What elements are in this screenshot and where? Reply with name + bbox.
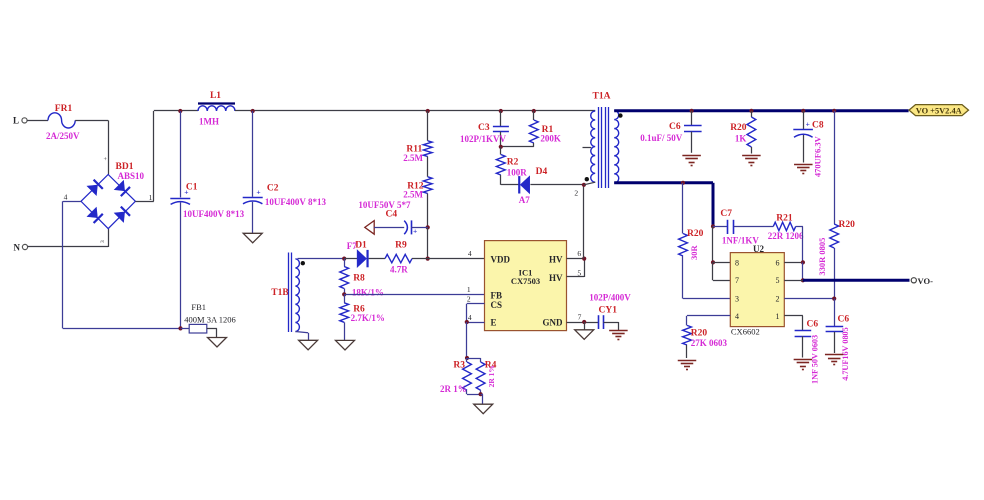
wire N to bridge bottom: [28, 246, 109, 248]
svg-text:A7: A7: [519, 195, 530, 205]
svg-text:GND: GND: [543, 318, 564, 328]
svg-text:C2: C2: [267, 183, 279, 193]
wire C7 node down to pin8: [712, 226, 714, 262]
wire E node down to R3 R4: [466, 322, 468, 358]
ground under IC1 GND: [584, 322, 586, 330]
svg-text:5: 5: [776, 276, 780, 285]
svg-text:C6: C6: [669, 122, 681, 132]
svg-text:2: 2: [776, 295, 780, 304]
resistor R1 200K: [533, 111, 535, 120]
phase dot primary: [585, 177, 589, 181]
wire HV pin 6: [567, 258, 585, 260]
node junction FB row: [342, 292, 346, 296]
earth ground C6 0603: [794, 359, 813, 361]
svg-text:470UF6.3V: 470UF6.3V: [813, 135, 823, 177]
svg-text:VDD: VDD: [491, 254, 511, 264]
node junction GND: [582, 320, 586, 324]
capacitor C6 4.7UF16V 0805: [834, 299, 836, 326]
wire fuse to bridge top: [75, 120, 108, 122]
svg-text:2: 2: [574, 188, 578, 197]
phase dot secondary: [618, 113, 622, 117]
resistor R20 27K 0603: [683, 325, 692, 345]
svg-text:27K 0603: 27K 0603: [691, 338, 728, 348]
svg-text:E: E: [491, 318, 497, 328]
svg-text:R8: R8: [353, 274, 365, 284]
svg-text:R20: R20: [839, 220, 856, 230]
capacitor C3 102P/1KVV: [500, 111, 502, 126]
wire switch node vertical: [583, 185, 585, 259]
node junction C2: [251, 109, 255, 113]
wire pin1: [784, 315, 803, 317]
node junction pin8: [711, 260, 715, 264]
resistor R11 2.5M: [427, 111, 429, 141]
node junction R3R4 bottom: [479, 392, 483, 396]
node junction R3R4 top: [465, 356, 469, 360]
node junction snubber: [499, 145, 503, 149]
svg-text:4: 4: [468, 249, 472, 258]
wire secondary bottom bus: [614, 181, 713, 184]
svg-text:0.1uF/ 50V: 0.1uF/ 50V: [640, 133, 683, 143]
capacitor C6 1NF 50V 0603: [795, 330, 812, 332]
node junction HV: [582, 257, 586, 261]
svg-text:30R: 30R: [689, 245, 699, 261]
svg-text:T1B: T1B: [271, 288, 289, 298]
svg-text:VO +5V2.4A: VO +5V2.4A: [916, 106, 962, 115]
svg-text:+: +: [256, 187, 260, 196]
svg-text:C8: C8: [812, 120, 824, 130]
capacitor C7 1NF/1KV: [713, 226, 727, 228]
svg-text:2.7K/1%: 2.7K/1%: [351, 313, 385, 323]
earth ground R20 27K: [678, 360, 697, 362]
wire HV pin 5: [567, 276, 585, 278]
resistor R9 4.7R: [385, 254, 412, 262]
svg-text:ABS10: ABS10: [118, 171, 145, 181]
capacitor C2 10UF400V: [252, 111, 254, 197]
inductor L1 1MH: [198, 102, 235, 104]
wire R1 bottom to C3 bottom: [501, 146, 534, 148]
svg-text:10UF400V 8*13: 10UF400V 8*13: [265, 197, 327, 207]
svg-text:CX6602: CX6602: [731, 326, 760, 336]
resistor R20 1K: [751, 111, 753, 117]
svg-text:CX7503: CX7503: [511, 276, 540, 286]
svg-text:10UF50V 5*7: 10UF50V 5*7: [358, 200, 411, 210]
svg-text:7: 7: [578, 312, 582, 321]
svg-text:2A/250V: 2A/250V: [46, 131, 80, 141]
svg-text:C7: C7: [720, 209, 732, 219]
svg-text:1: 1: [149, 193, 153, 202]
svg-text:200K: 200K: [540, 134, 561, 144]
fuse FR1: [48, 113, 75, 128]
node junction R20 330R: [832, 109, 836, 113]
wire pin2: [784, 298, 834, 300]
svg-text:6: 6: [776, 259, 780, 268]
svg-text:D1: D1: [355, 240, 367, 250]
earth ground C6: [682, 155, 701, 157]
svg-text:D4: D4: [536, 167, 548, 177]
bridge rectifier BD1 ABS10: [81, 175, 135, 229]
svg-text:4: 4: [735, 312, 739, 321]
wire +5V output bus: [614, 109, 908, 112]
capacitor C8 470UF6.3V: [803, 111, 805, 130]
ground under FB1: [208, 338, 227, 348]
svg-text:1K: 1K: [735, 133, 747, 143]
wire R12 to C4 node: [427, 194, 429, 228]
svg-text:+: +: [806, 119, 810, 128]
ground under R3R4: [481, 394, 483, 396]
svg-text:2.5M: 2.5M: [403, 153, 423, 163]
svg-text:HV: HV: [549, 273, 563, 283]
svg-text:22R 1206: 22R 1206: [768, 231, 804, 241]
wire top rail to transformer: [235, 110, 595, 112]
svg-text:R20: R20: [730, 123, 747, 133]
svg-text:4: 4: [64, 193, 68, 202]
wire pin5: [784, 280, 803, 282]
secondary winding: [614, 111, 619, 183]
wire pin8: [713, 262, 730, 264]
svg-text:C6: C6: [838, 314, 850, 324]
capacitor C1 10UF400V: [180, 111, 182, 197]
resistor R2 100R: [500, 147, 502, 155]
svg-text:400M 3A 1206: 400M 3A 1206: [184, 314, 235, 324]
svg-text:3: 3: [100, 240, 106, 243]
svg-text:N: N: [14, 243, 21, 253]
svg-text:2: 2: [467, 295, 471, 304]
node junction pin2: [832, 297, 836, 301]
IC U2 CX6602 body: [730, 253, 784, 327]
wire R9 to VDD pin: [412, 258, 485, 260]
node junction R20 30R: [681, 181, 685, 185]
wire GND pin 7: [567, 322, 599, 324]
wire FB row to IC1: [344, 294, 484, 296]
svg-text:FB: FB: [491, 291, 503, 301]
node junction pin5: [801, 278, 805, 282]
svg-text:R21: R21: [776, 213, 793, 223]
svg-text:R3: R3: [453, 360, 465, 370]
earth ground C6 0805: [825, 354, 844, 356]
svg-text:CY1: CY1: [599, 306, 618, 316]
node junction R11: [426, 109, 430, 113]
node junction C1: [178, 109, 182, 113]
wire C4 node to VDD row: [427, 227, 429, 258]
svg-text:1: 1: [776, 312, 780, 321]
svg-text:VO-: VO-: [918, 276, 934, 286]
node junction R8 top: [342, 257, 346, 261]
diode D4 A7: [501, 184, 519, 186]
wire bridge right pin1 to top rail: [135, 201, 153, 203]
transformer core: [598, 107, 600, 188]
svg-text:7: 7: [735, 276, 739, 285]
svg-text:1: 1: [467, 285, 471, 294]
node junction C4: [426, 225, 430, 229]
svg-text:18K/1%: 18K/1%: [352, 287, 384, 297]
svg-text:C1: C1: [186, 183, 198, 193]
svg-text:+: +: [413, 226, 417, 235]
wire VO- bus: [803, 279, 910, 282]
svg-text:5: 5: [577, 268, 581, 277]
svg-text:330R 0805: 330R 0805: [817, 238, 827, 276]
svg-text:U2: U2: [753, 244, 764, 254]
svg-text:100R: 100R: [507, 167, 528, 177]
earth ground R20 1K: [742, 155, 761, 157]
resistor R20 30R: [682, 183, 684, 234]
wire pin6 to pin5 node: [802, 262, 804, 280]
wire pin4: [687, 315, 730, 317]
svg-text:4: 4: [468, 313, 472, 322]
wire T1B bottom to ground: [295, 332, 308, 333]
wire top rail left section: [154, 110, 198, 112]
svg-text:FB1: FB1: [191, 302, 206, 312]
node junction C3: [499, 109, 503, 113]
svg-text:R2: R2: [507, 157, 519, 167]
resistor R4 2R 1%: [476, 362, 485, 390]
IC U1 CX7503 body: [485, 241, 567, 331]
node junction pin6: [801, 260, 805, 264]
svg-text:3: 3: [735, 295, 739, 304]
svg-text:C4: C4: [386, 209, 398, 219]
wire T1B top to D1 node: [298, 258, 345, 260]
svg-text:102P/1KVV: 102P/1KVV: [460, 134, 506, 144]
svg-text:4.7R: 4.7R: [390, 265, 408, 275]
node junction switch: [582, 183, 586, 187]
svg-text:C3: C3: [478, 123, 490, 133]
svg-text:1MH: 1MH: [199, 117, 219, 127]
node junction VDD row: [426, 257, 430, 261]
ferrite bead FB1 400M 3A 1206: [178, 326, 182, 330]
wire pin6: [784, 262, 803, 264]
node L input terminal: [22, 118, 27, 123]
ground under T1B: [299, 340, 318, 350]
wire bridge left pin4 to bottom rail: [63, 201, 81, 203]
node junction C8: [801, 109, 805, 113]
primary tap stub: [583, 147, 592, 149]
svg-text:2R 1%: 2R 1%: [440, 384, 467, 394]
node VO- terminal: [911, 278, 916, 283]
svg-text:R20: R20: [687, 229, 704, 239]
ground under R6: [336, 340, 355, 350]
wire R21 to pin6 node: [796, 226, 803, 228]
node junction R1: [532, 109, 536, 113]
node N input terminal: [22, 244, 27, 249]
wire pin7: [712, 262, 714, 280]
capacitor C6 0.1uF/50V: [691, 111, 693, 125]
node junction C6 sec: [690, 109, 694, 113]
resistor R3 2R 1%: [467, 358, 481, 360]
wire L to fuse: [27, 120, 48, 122]
svg-text:L1: L1: [210, 91, 221, 101]
node junction C7: [711, 224, 715, 228]
resistor R8 18K/1%: [344, 259, 346, 267]
resistor R21 22R 1206: [773, 222, 795, 230]
svg-text:R9: R9: [395, 241, 407, 251]
ground under C2: [243, 233, 262, 243]
earth ground C8: [794, 164, 813, 166]
svg-text:8: 8: [735, 259, 739, 268]
svg-text:C6: C6: [807, 319, 819, 329]
resistor R6 2.7K/1%: [344, 294, 346, 302]
svg-text:L: L: [13, 115, 19, 125]
svg-text:CS: CS: [491, 300, 503, 310]
svg-text:102P/400V: 102P/400V: [589, 293, 631, 303]
svg-text:10UF400V 8*13: 10UF400V 8*13: [183, 209, 245, 219]
node junction R20 1K: [749, 109, 753, 113]
svg-text:2R 1%: 2R 1%: [487, 365, 496, 387]
earth ground CY1: [609, 330, 628, 332]
svg-text:FR1: FR1: [55, 104, 73, 114]
output flag VO +5V2.4A: [909, 105, 969, 116]
wire bottom rail to FB1 node: [63, 328, 181, 330]
wire primary bottom hook: [584, 182, 595, 185]
svg-text:6: 6: [577, 249, 581, 258]
svg-text:HV: HV: [549, 254, 563, 264]
svg-text:T1A: T1A: [593, 91, 611, 101]
svg-text:2.5M: 2.5M: [403, 190, 423, 200]
resistor R12 2.5M: [427, 157, 429, 177]
node junction E: [465, 320, 469, 324]
resistor R20 330R 0805: [834, 111, 836, 224]
